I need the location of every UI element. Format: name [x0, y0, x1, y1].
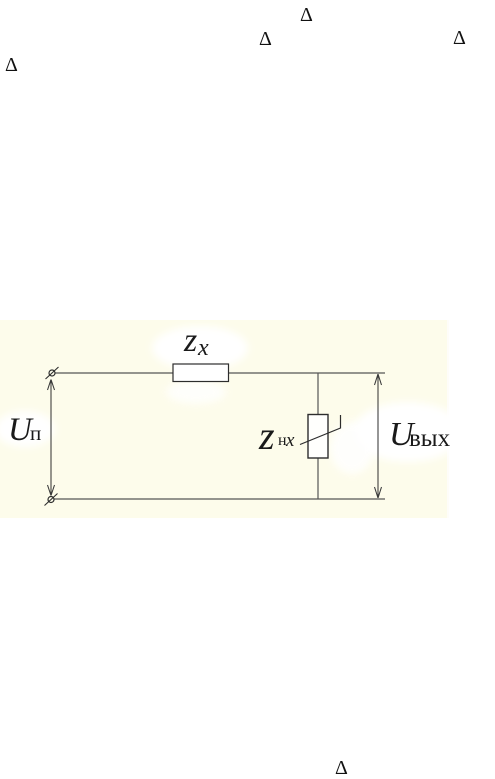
svg-text:x: x — [197, 335, 209, 361]
delta mark 4 — [5, 55, 18, 75]
varistor diagonal stroke — [300, 415, 341, 445]
terminal bottom-left — [45, 494, 58, 506]
wire varistor bottom — [317, 458, 319, 499]
svg-text:вых: вых — [409, 425, 451, 452]
resistor Zx — [173, 364, 229, 382]
delta mark 3 — [453, 28, 466, 48]
dimension arrow U_vyh — [375, 374, 382, 498]
wire bottom — [54, 498, 385, 500]
wire top — [55, 372, 385, 374]
figure background — [0, 320, 447, 518]
white halo right of varistor — [330, 422, 374, 474]
svg-text:z: z — [183, 322, 197, 359]
delta mark 5 — [335, 758, 348, 778]
white halo around z_x label — [152, 326, 248, 370]
white halo around U_vyh label — [353, 402, 463, 462]
svg-text:z: z — [258, 413, 275, 458]
delta mark 1 — [300, 5, 313, 25]
svg-text:x: x — [285, 430, 295, 451]
svg-text:п: п — [30, 421, 41, 445]
wire varistor top — [317, 373, 319, 415]
terminal top-left — [46, 367, 59, 379]
varistor Znx body — [308, 415, 328, 459]
white halo around U_p label — [0, 411, 55, 447]
dimension arrow U_p — [48, 380, 55, 496]
white halo under resistor — [166, 380, 226, 404]
delta mark 2 — [259, 29, 272, 49]
